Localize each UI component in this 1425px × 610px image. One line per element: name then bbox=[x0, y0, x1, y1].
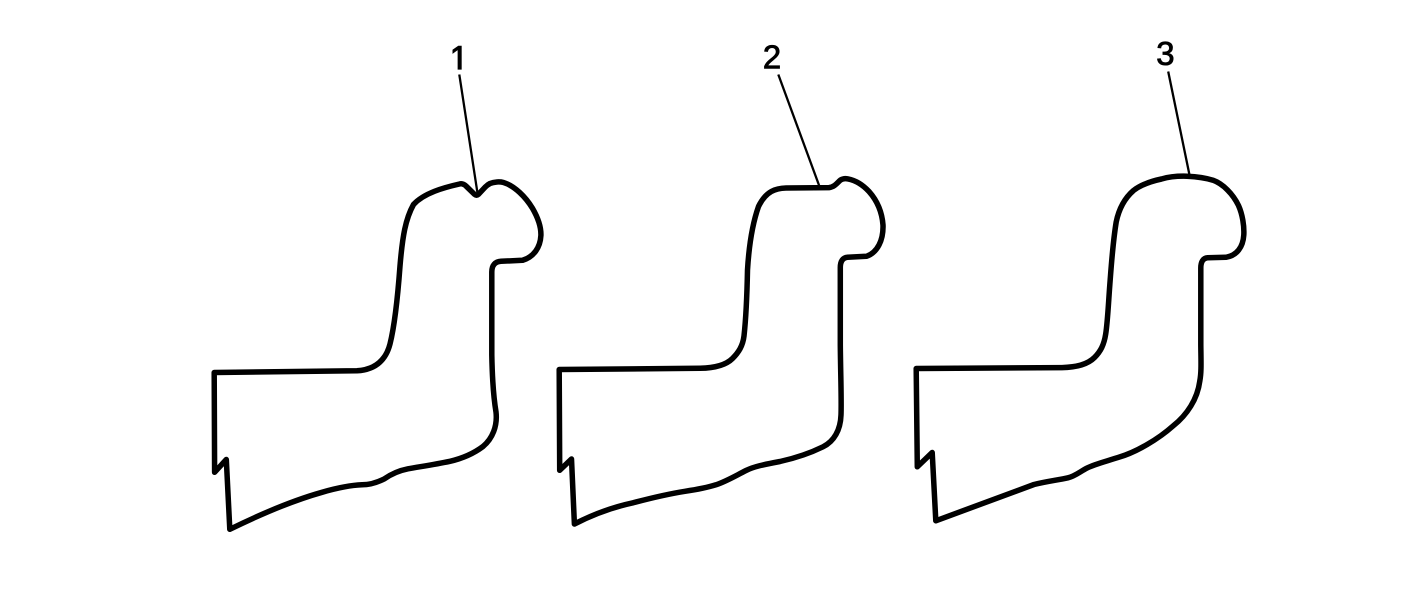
label 1 bbox=[453, 46, 461, 69]
profile section 1 (notched head) bbox=[214, 182, 541, 529]
leader line 2 bbox=[778, 75, 819, 187]
profile section 3 (smooth head) bbox=[916, 176, 1244, 521]
label 3 bbox=[1157, 42, 1173, 65]
label 2 bbox=[764, 45, 779, 68]
leader line 3 bbox=[1168, 72, 1189, 175]
leader line 1 bbox=[459, 75, 477, 193]
profile section 2 (stepped head) bbox=[559, 179, 883, 524]
